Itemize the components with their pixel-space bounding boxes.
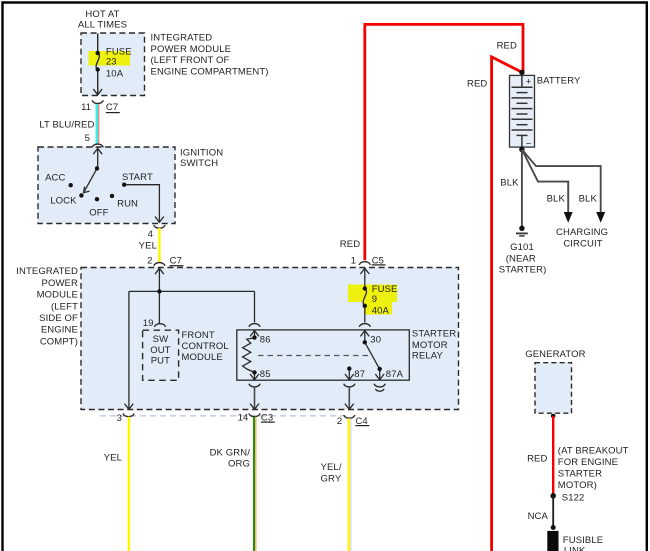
- svg-text:85: 85: [260, 369, 271, 380]
- svg-text:MOTOR): MOTOR): [558, 480, 597, 491]
- svg-text:RUN: RUN: [117, 198, 138, 209]
- svg-text:+: +: [526, 76, 532, 87]
- svg-text:SW: SW: [153, 334, 169, 345]
- svg-text:4: 4: [148, 229, 153, 240]
- svg-text:INTEGRATED: INTEGRATED: [151, 33, 213, 44]
- svg-text:19: 19: [143, 318, 154, 329]
- svg-text:RED: RED: [467, 79, 487, 90]
- svg-text:SWITCH: SWITCH: [180, 158, 218, 169]
- svg-text:YEL/: YEL/: [321, 462, 342, 473]
- svg-text:BLK: BLK: [579, 194, 598, 205]
- svg-text:LOCK: LOCK: [50, 195, 77, 206]
- svg-text:STARTER: STARTER: [558, 469, 602, 480]
- svg-text:FUSIBLE: FUSIBLE: [563, 535, 603, 546]
- svg-text:1: 1: [351, 255, 356, 266]
- svg-text:MOTOR: MOTOR: [412, 340, 448, 351]
- svg-text:(AT BREAKOUT: (AT BREAKOUT: [558, 446, 629, 457]
- svg-text:87: 87: [354, 369, 365, 380]
- svg-text:GRY: GRY: [321, 474, 342, 485]
- svg-text:OFF: OFF: [89, 207, 108, 218]
- svg-text:CHARGING: CHARGING: [556, 227, 608, 238]
- svg-text:SIDE OF: SIDE OF: [39, 313, 78, 324]
- svg-text:G101: G101: [510, 242, 534, 253]
- svg-text:2: 2: [337, 416, 342, 427]
- svg-text:COMPT): COMPT): [40, 336, 78, 347]
- svg-text:NCA: NCA: [528, 511, 549, 522]
- svg-text:(LEFT FRONT OF: (LEFT FRONT OF: [151, 55, 230, 66]
- svg-text:(NEAR: (NEAR: [506, 254, 536, 265]
- svg-text:30: 30: [370, 335, 381, 346]
- svg-text:BLK: BLK: [500, 177, 519, 188]
- svg-text:87A: 87A: [386, 369, 404, 380]
- svg-text:FOR ENGINE: FOR ENGINE: [558, 457, 618, 468]
- svg-text:S122: S122: [562, 493, 585, 504]
- svg-text:POWER MODULE: POWER MODULE: [151, 44, 232, 55]
- svg-text:14: 14: [238, 413, 249, 424]
- svg-text:(LEFT: (LEFT: [51, 301, 78, 312]
- svg-text:9: 9: [372, 294, 377, 305]
- svg-text:86: 86: [260, 334, 271, 345]
- svg-text:C7: C7: [106, 102, 118, 113]
- svg-text:ENGINE: ENGINE: [41, 325, 78, 336]
- svg-text:PUT: PUT: [151, 355, 170, 366]
- svg-text:YEL: YEL: [104, 453, 122, 464]
- svg-text:HOT AT: HOT AT: [85, 9, 119, 20]
- svg-text:LT BLU/RED: LT BLU/RED: [39, 119, 94, 130]
- svg-text:5: 5: [85, 133, 90, 144]
- svg-text:MODULE: MODULE: [182, 352, 223, 363]
- svg-text:23: 23: [106, 57, 117, 68]
- svg-text:LINK: LINK: [564, 545, 586, 551]
- svg-text:ORG: ORG: [228, 459, 250, 470]
- svg-text:BLK: BLK: [547, 194, 566, 205]
- svg-text:RED: RED: [497, 41, 517, 52]
- svg-text:BATTERY: BATTERY: [537, 76, 581, 87]
- svg-text:INTEGRATED: INTEGRATED: [16, 266, 78, 277]
- svg-text:MODULE: MODULE: [37, 290, 78, 301]
- svg-text:RED: RED: [527, 454, 547, 465]
- svg-text:YEL: YEL: [139, 240, 157, 251]
- svg-text:GENERATOR: GENERATOR: [525, 349, 585, 360]
- svg-text:CONTROL: CONTROL: [182, 341, 229, 352]
- svg-text:RELAY: RELAY: [412, 351, 444, 362]
- svg-text:−: −: [526, 138, 532, 149]
- svg-text:POWER: POWER: [42, 278, 79, 289]
- svg-text:10A: 10A: [106, 68, 124, 79]
- svg-text:FRONT: FRONT: [182, 330, 215, 341]
- svg-text:11: 11: [81, 102, 91, 113]
- svg-text:START: START: [122, 172, 153, 183]
- svg-text:2: 2: [147, 255, 152, 266]
- svg-text:ALL TIMES: ALL TIMES: [78, 20, 127, 31]
- svg-text:ENGINE COMPARTMENT): ENGINE COMPARTMENT): [151, 66, 269, 77]
- svg-text:ACC: ACC: [45, 173, 65, 184]
- svg-text:OUT: OUT: [150, 345, 170, 356]
- svg-text:3: 3: [117, 413, 122, 424]
- svg-text:STARTER: STARTER: [412, 329, 456, 340]
- svg-text:STARTER): STARTER): [499, 265, 547, 276]
- svg-text:40A: 40A: [372, 306, 390, 317]
- svg-text:C7: C7: [170, 255, 182, 266]
- svg-text:CIRCUIT: CIRCUIT: [563, 239, 602, 250]
- svg-text:DK GRN/: DK GRN/: [210, 448, 251, 459]
- svg-text:RED: RED: [340, 239, 360, 250]
